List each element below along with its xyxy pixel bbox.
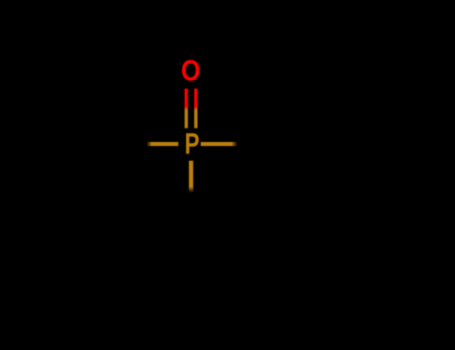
bond P-CH3 right [201,142,238,146]
atom O [182,60,199,81]
double bond P=O (right line) [194,89,197,129]
double bond P=O (left line) [185,89,188,129]
bond P-CH3 down [189,161,193,193]
atom P [186,133,199,154]
bond P-CH3 left [147,142,179,146]
